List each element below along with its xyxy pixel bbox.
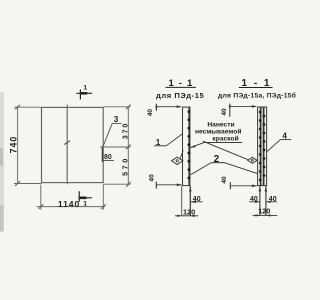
right section bottom-left 40 tick [229,182,231,189]
svg-text:370: 370 [121,122,130,139]
left strip top cap [182,106,190,108]
leader 1 oblique [166,133,183,145]
scan smudge blob 2 [0,205,4,231]
panel joint middle line [66,105,68,185]
svg-text:740: 740 [9,136,19,154]
svg-text:2: 2 [214,154,220,165]
svg-text:Нанести: Нанести [207,121,234,128]
arrow into strip bottom-left [177,184,182,187]
panel outline [42,107,104,182]
right section 40 left dim line [249,201,260,203]
note leader to right diamond [203,141,248,159]
svg-text:4: 4 [282,132,287,141]
leader 2 underline [211,162,225,164]
right strip A anchor dots [259,111,262,182]
dim 740 tick bottom [15,181,20,186]
svg-text:несмываемой: несмываемой [195,127,241,135]
leader 4 oblique [267,140,281,152]
dim 80 stub line [101,148,103,163]
note leader arrow left [190,145,195,148]
right section 40 right dim line [266,201,277,203]
note leader to left strip [191,143,205,148]
section mark 1 top [76,89,92,99]
left section 40 protrusion arrow [191,201,196,204]
scan smudge blob 1 [0,148,3,166]
left section bottom-left 40 dim line [156,184,181,186]
dim 740 tick top [15,105,20,110]
leader 3 oblique [103,123,113,147]
arrow into strip top [177,105,182,108]
dim 1140 extension right [102,185,104,210]
note underline [204,142,242,144]
right strip A left face [257,107,259,186]
dim tick at 370 top [126,105,131,110]
svg-text:3: 3 [114,115,119,124]
right section top 40 tick arrow [229,103,231,107]
right strip B left face (thick) [263,107,265,186]
right strips top cap [257,106,267,108]
dim tick at 370/570 middle [126,145,131,150]
right section bottom-left 40 dim line [230,185,256,187]
right strip B anchor dots [263,115,266,177]
arrow up at right rod B top [265,186,268,191]
dim 740 extension bottom [14,183,42,185]
dim 80 underline [102,159,114,161]
left section top 40 dim line [156,106,180,108]
dim 1140 line [37,206,106,208]
svg-text:40: 40 [147,109,154,117]
left section 120 dim line [175,215,198,217]
right section top 40 tick [229,104,231,117]
dim 370/570 line [127,106,129,185]
right diamond mark [248,157,257,163]
dim 740 extension top [14,106,42,108]
svg-text:570: 570 [121,156,130,176]
svg-text:40: 40 [193,196,201,203]
dim 370/570 extension bottom [104,183,131,185]
dim tick at 570 bottom [126,182,131,187]
left diamond glyph [176,160,178,162]
svg-text:120: 120 [183,207,195,216]
svg-text:40: 40 [269,196,277,203]
svg-text:40: 40 [221,176,228,184]
leader 2 left leg [191,163,211,175]
dim 1140 tick right [101,204,106,209]
leader 1 shelf [154,145,166,147]
svg-text:1: 1 [83,200,87,207]
arrow into right strips bottom-left [252,185,257,188]
right section 40 left arrow [255,201,260,203]
svg-text:краской: краской [212,134,238,142]
right strips bottom cap [257,185,267,187]
left section title underline [166,86,197,88]
left section 120 arrow right [190,215,195,217]
svg-text:40: 40 [221,108,228,116]
right section rod left extension [259,186,261,216]
svg-text:1: 1 [83,84,87,91]
dim 370/570 extension middle [100,146,131,148]
svg-text:для ПЭд-15а, ПЭд-15б: для ПЭд-15а, ПЭд-15б [218,91,296,99]
left section bottom rod left extension [181,186,183,216]
joint slash mark [64,141,70,145]
right section rod right extension [265,186,267,216]
left strip bottom cap [182,185,190,187]
right strip B right face [266,107,268,186]
dim 740 line [17,106,19,184]
right strip A right face (thick) [260,107,262,186]
left strip left face [182,107,184,186]
left section bottom rod right extension [189,186,191,216]
dim 1140 extension left [40,185,42,210]
left section 40 protrusion dim line [190,201,202,203]
left diamond leader [180,151,183,159]
arrow up at right rod A top [259,186,262,191]
right section 120 arrow left [255,214,260,216]
leader 2 right leg [225,163,258,174]
left section top 40 tick [155,104,157,111]
right section 40 right arrow [266,201,271,203]
left diamond mark [172,157,183,164]
left strip anchor dots [188,110,191,179]
arrow up at rod top [189,186,192,191]
left strip right face (thick) [188,107,190,186]
dim 1140 tick left [39,204,44,209]
svg-text:120: 120 [258,207,270,216]
svg-text:1: 1 [156,138,161,147]
svg-text:для ПЭд-15: для ПЭд-15 [156,91,204,100]
svg-text:80: 80 [104,154,112,161]
left section bottom-left 40 tick [155,182,157,189]
right section title underline [239,87,273,89]
section mark 1 bottom [79,191,92,202]
right section 120 dim line [253,214,278,216]
left section top 40 tick arrow [155,103,157,107]
leader 4 shelf [280,139,291,141]
svg-text:40: 40 [148,174,155,182]
svg-text:1140: 1140 [58,199,80,209]
right section 120 arrow right [266,214,271,216]
leader 3 shelf [112,122,121,124]
right diamond glyph [251,159,253,161]
scan smudge left edge [0,92,4,232]
svg-text:40: 40 [250,196,258,203]
arrow into right strips top [252,105,257,108]
left section 120 arrow left [177,215,182,217]
dim 370/570 extension top [104,106,131,108]
right section top 40 dim line [230,105,256,107]
